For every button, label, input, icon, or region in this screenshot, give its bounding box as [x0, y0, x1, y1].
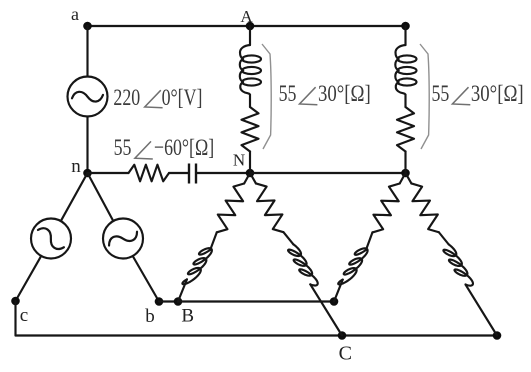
node B-bus junction — [330, 297, 339, 306]
label 55∠30°[Ω] first — [279, 80, 371, 107]
svg-text:A: A — [240, 7, 253, 26]
svg-text:30°[Ω]: 30°[Ω] — [471, 80, 524, 107]
inductor L1 — [240, 45, 261, 95]
node n — [83, 169, 92, 178]
svg-text:c: c — [20, 305, 28, 326]
node A — [246, 22, 255, 31]
node B — [174, 297, 183, 306]
svg-text:B: B — [181, 306, 194, 327]
inductor L2 — [395, 45, 416, 95]
resistor R1 (55angle-60) — [129, 165, 170, 182]
wire V3 to b — [133, 256, 159, 302]
wire V1 to n — [86, 117, 88, 174]
wire L1 to R2 — [249, 95, 251, 107]
node N — [246, 169, 255, 178]
bracket impedance right branch — [420, 44, 429, 149]
wire Z1 (N-B leg) end segment — [178, 279, 187, 301]
svg-text:N: N — [233, 151, 245, 170]
wire b to B — [159, 300, 178, 302]
resistor Z3 (right-left leg) — [372, 183, 399, 232]
wire N to mid-right junction — [250, 172, 406, 174]
wire Z4 (right-right leg) apex segment — [406, 173, 412, 183]
svg-text:n: n — [71, 156, 81, 177]
wire Z2 (N-C leg) mid segment — [284, 232, 294, 244]
resistor Z4 (right-right leg) — [411, 183, 438, 232]
node a — [83, 22, 92, 31]
node b — [155, 297, 164, 306]
node mid-right junction — [401, 169, 410, 178]
wire Z3 (right-left leg) mid segment — [366, 232, 372, 249]
wire Z2 (N-C leg) apex segment — [250, 173, 256, 183]
svg-text:C: C — [339, 343, 352, 365]
svg-text:55: 55 — [432, 80, 450, 107]
inductor Z4 (right-right leg) — [443, 244, 473, 285]
svg-text:55: 55 — [114, 134, 132, 161]
source V3 — [103, 219, 143, 259]
source V1 — [68, 77, 108, 117]
svg-text:0°[V]: 0°[V] — [162, 84, 203, 111]
resistor Z1 (N-B leg) — [217, 183, 244, 232]
node C — [338, 331, 347, 340]
wire Z4 (right-right leg) mid segment — [439, 232, 449, 244]
svg-text:−60°[Ω]: −60°[Ω] — [154, 134, 214, 161]
wire n to source V2 — [61, 173, 88, 221]
wire Z3 (right-left leg) apex segment — [400, 173, 406, 183]
svg-text:b: b — [145, 306, 155, 327]
svg-text:220: 220 — [113, 84, 140, 111]
source V2 — [31, 219, 71, 259]
wire Z1 (N-B leg) apex segment — [244, 173, 250, 183]
wire V2 to c — [16, 256, 42, 301]
svg-text:a: a — [71, 4, 79, 24]
wire L2 to R3 — [404, 95, 406, 107]
node c — [11, 297, 20, 306]
wire a to source V1 — [86, 26, 88, 77]
label 55∠-60°[Ω] — [114, 134, 215, 161]
wire bottom bus — [16, 334, 498, 336]
wire Z1 (N-B leg) mid segment — [210, 232, 216, 249]
inductor Z1 (N-B leg) — [182, 248, 211, 284]
resistor R3 — [397, 107, 414, 152]
wire top bus a-A-right — [88, 25, 406, 27]
wire Z4 (right-right leg) end segment — [466, 285, 497, 336]
bracket impedance A-N — [262, 44, 271, 149]
wire n to source V3 — [88, 173, 114, 221]
inductor Z2 (N-C leg) — [288, 244, 318, 285]
label 55∠30°[Ω] second — [432, 80, 524, 107]
node bottom-right junction — [493, 331, 502, 340]
wire top-right junction to L2 — [404, 26, 406, 45]
wire Z3 (right-left leg) end segment — [334, 280, 343, 302]
wire R2 to N — [249, 152, 251, 174]
wire c to bottom bus — [14, 301, 16, 336]
wire n to R1 — [88, 172, 129, 174]
label 220∠0°[V] — [113, 84, 202, 111]
wire Z2 (N-C leg) end segment — [310, 284, 342, 335]
wire R1 to C1 — [169, 172, 189, 174]
svg-text:30°[Ω]: 30°[Ω] — [318, 80, 371, 107]
wire B bus — [178, 300, 334, 302]
wire R3 to mid-right junction — [404, 152, 406, 174]
wire C1 to N — [196, 172, 250, 174]
capacitor C1 — [189, 164, 196, 184]
svg-text:55: 55 — [279, 80, 297, 107]
resistor R2 — [242, 107, 259, 152]
resistor Z2 (N-C leg) — [256, 183, 284, 232]
inductor Z3 (right-left leg) — [338, 248, 367, 284]
node top-right junction — [401, 22, 410, 31]
wire A to L1 — [249, 26, 251, 45]
